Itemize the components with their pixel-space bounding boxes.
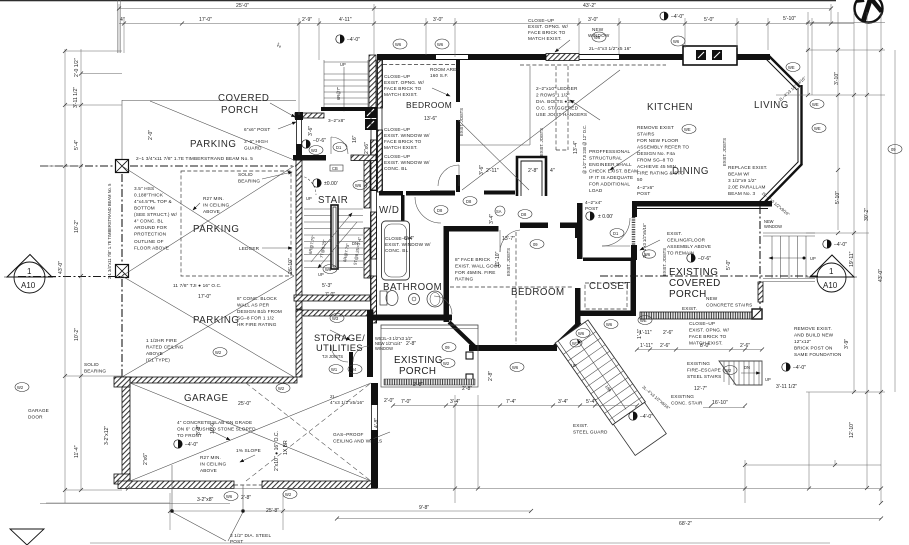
svg-text:CONC. BL: CONC. BL — [384, 166, 408, 171]
svg-text:4–2"x4": 4–2"x4" — [585, 200, 602, 205]
svg-text:5'-10": 5'-10" — [783, 16, 796, 22]
svg-text:EXIST. WINDOW W/: EXIST. WINDOW W/ — [385, 242, 431, 247]
svg-text:AND BUILD NEW: AND BUILD NEW — [794, 333, 834, 338]
svg-text:NEW: NEW — [706, 296, 718, 301]
svg-text:2'-0 1/2": 2'-0 1/2" — [74, 58, 80, 77]
svg-text:09: 09 — [891, 147, 896, 152]
svg-text:EXIST. JOISTS: EXIST. JOISTS — [459, 108, 464, 136]
beam line vertical dash-dot — [121, 159, 123, 378]
svg-text:2'-8": 2'-8" — [413, 382, 423, 388]
svg-text:3-2"x12": 3-2"x12" — [104, 426, 110, 445]
svg-text:2'-8": 2'-8" — [528, 168, 538, 174]
pantry box — [517, 157, 546, 196]
svg-text:EXIST.: EXIST. — [667, 231, 682, 236]
tag W2 garage r — [441, 359, 455, 368]
svg-text:W6: W6 — [226, 494, 233, 499]
wall: storage top — [296, 310, 373, 316]
svg-text:11'-4": 11'-4" — [74, 445, 80, 458]
wall: porch base at stair — [321, 107, 376, 111]
svg-text:3'-6" HIGH: 3'-6" HIGH — [244, 139, 268, 144]
svg-text:2"x6": 2"x6" — [364, 142, 370, 154]
wall: garage top — [117, 377, 297, 383]
svg-text:LIVING: LIVING — [754, 100, 789, 111]
elevation marker steel guard — [629, 412, 653, 420]
svg-text:WE: WE — [788, 65, 795, 70]
svg-text:ASSEMBLY REFER TO: ASSEMBLY REFER TO — [637, 145, 689, 150]
svg-text:4": 4" — [550, 168, 555, 174]
svg-text:FIRE RATING & STC: FIRE RATING & STC — [637, 171, 684, 176]
note: solid bearing — [238, 172, 260, 184]
svg-text:W6: W6 — [673, 39, 680, 44]
svg-text:GAS–PROOF: GAS–PROOF — [333, 432, 364, 437]
dimension chain: top row 1 — [119, 4, 831, 55]
svg-text:5'-4": 5'-4" — [586, 399, 596, 405]
svg-text:WE: WE — [640, 318, 647, 323]
svg-text:DESIGN B1b FROM: DESIGN B1b FROM — [237, 309, 282, 314]
note: remove exist brick post — [794, 326, 841, 357]
closet dashed shelves — [585, 283, 627, 309]
svg-text:O.C. STAGGERED: O.C. STAGGERED — [536, 106, 579, 111]
svg-text:TJI JOISTS: TJI JOISTS — [322, 354, 343, 359]
svg-text:BEAM W/: BEAM W/ — [728, 172, 750, 177]
svg-text:A10: A10 — [823, 281, 838, 290]
stair: diagonal to existing porch (SE) — [555, 320, 667, 456]
svg-text:3'-4": 3'-4" — [489, 214, 495, 224]
svg-text:7'-0": 7'-0" — [325, 292, 335, 298]
wall: bay diagonal bottom — [762, 164, 802, 205]
svg-text:FACE BRICK TO: FACE BRICK TO — [384, 86, 422, 91]
svg-text:2'-0": 2'-0" — [148, 130, 154, 140]
svg-text:5'-4": 5'-4" — [74, 140, 80, 150]
wall: stair hall right hatched — [364, 160, 370, 208]
elevation marker top kitchen — [660, 12, 684, 20]
svg-text:ACHIEVE 45 MIN.: ACHIEVE 45 MIN. — [637, 164, 678, 169]
door: storage D4 — [353, 346, 369, 362]
svg-text:8" FACE BRICK: 8" FACE BRICK — [455, 257, 491, 262]
svg-text:EXISTING: EXISTING — [687, 361, 710, 366]
svg-text:PROFFESSIONAL: PROFFESSIONAL — [589, 149, 631, 154]
svg-text:4"x4.5"PL TOP &: 4"x4.5"PL TOP & — [134, 199, 172, 204]
existing porch bottom-center outline — [381, 325, 478, 387]
svg-text:CLOSE–UP: CLOSE–UP — [528, 18, 554, 23]
svg-text:13'-7": 13'-7" — [502, 236, 515, 242]
bedroom2 dashed centerlines — [450, 232, 574, 344]
door: bathroom — [434, 296, 452, 314]
svg-text:±0.00': ±0.00' — [324, 181, 338, 187]
svg-text:DIA. BOLTS ●24": DIA. BOLTS ●24" — [536, 99, 575, 104]
wall: house top band (bedroom+kitchen) — [377, 55, 768, 60]
svg-text:EXIST. JOISTS: EXIST. JOISTS — [506, 248, 511, 276]
svg-text:OUTLINE OF: OUTLINE OF — [134, 239, 164, 244]
svg-text:ABOVE: ABOVE — [146, 351, 163, 356]
wall: bedroom2 top — [444, 226, 499, 232]
tag WE bay 2 — [810, 100, 824, 109]
svg-text:PORCH: PORCH — [669, 289, 707, 300]
compass north arrow top right — [855, 0, 883, 23]
wall: storage divider — [349, 352, 353, 377]
svg-text:STRUCTURAL: STRUCTURAL — [589, 156, 622, 161]
wall: stair hall bottom / storage top — [294, 295, 370, 301]
tag 09 existing porch right — [888, 145, 902, 154]
tag SA — [495, 206, 505, 216]
svg-text:SG–8 FOR 1 1/2: SG–8 FOR 1 1/2 — [237, 316, 274, 321]
svg-text:11 7/8" TJI ● 16" O.C.: 11 7/8" TJI ● 16" O.C. — [173, 283, 222, 288]
svg-text:8" CONC. BLOCK: 8" CONC. BLOCK — [237, 296, 278, 301]
svg-text:2'-6": 2'-6" — [740, 343, 750, 349]
svg-text:UP: UP — [810, 256, 816, 261]
dimension chain: top row 2 — [119, 18, 854, 115]
svg-text:UP: UP — [765, 377, 771, 382]
svg-text:EXIST. OPNG. W/: EXIST. OPNG. W/ — [528, 24, 569, 29]
tag W2 garage right wall — [723, 366, 737, 375]
svg-text:EXIST. OPNG. W/: EXIST. OPNG. W/ — [384, 80, 425, 85]
svg-text:REMOVE EXIST: REMOVE EXIST — [637, 125, 674, 130]
svg-text:1 1/2HR FIRE: 1 1/2HR FIRE — [146, 338, 177, 343]
svg-text:DOOR: DOOR — [28, 415, 43, 420]
svg-text:BATHROOM: BATHROOM — [383, 282, 442, 293]
porch left low wall — [758, 282, 763, 302]
svg-text:@ 1/2" TJI 230 @ 12" O.C.: @ 1/2" TJI 230 @ 12" O.C. — [582, 125, 587, 174]
svg-text:PORCH: PORCH — [221, 105, 259, 116]
svg-text:BEARING: BEARING — [238, 179, 260, 184]
svg-text:BEDROOM: BEDROOM — [511, 287, 565, 298]
svg-text:2'-0": 2'-0" — [384, 398, 394, 404]
svg-text:WINDOW: WINDOW — [764, 224, 782, 229]
svg-text:POST: POST — [585, 206, 598, 211]
svg-text:25'-0": 25'-0" — [236, 3, 249, 9]
svg-text:SOLID: SOLID — [84, 362, 99, 367]
svg-text:19'-11": 19'-11" — [849, 251, 855, 267]
wall: storage left — [296, 310, 302, 377]
note: existing fire-escape — [687, 361, 721, 379]
svg-text:1'-11": 1'-11" — [640, 343, 653, 349]
svg-text:POST: POST — [637, 191, 650, 196]
svg-text:ABOVE: ABOVE — [200, 468, 217, 473]
tag W6 bedroom2 — [576, 329, 590, 338]
svg-text:6"x6" POST: 6"x6" POST — [244, 127, 270, 132]
svg-text:6R@7": 6R@7" — [336, 86, 341, 100]
wall: bedroom2 left — [444, 226, 450, 322]
note: kitchen ledger — [536, 86, 587, 117]
tag 09 closet — [530, 240, 544, 249]
stair: fire escape steel — [719, 361, 762, 385]
svg-text:W6: W6 — [395, 42, 402, 47]
kitchen diagonals — [458, 70, 620, 190]
svg-text:W2: W2 — [443, 361, 450, 366]
note: r27 garage — [200, 455, 226, 473]
posts: two black squares left of bedroom — [365, 107, 377, 130]
svg-text:DN: DN — [744, 365, 750, 370]
dimension chain: bottom — [40, 392, 881, 543]
svg-text:GARAGE: GARAGE — [184, 393, 228, 404]
svg-text:12'-7": 12'-7" — [694, 386, 707, 392]
svg-text:WINDOW: WINDOW — [375, 346, 393, 351]
section marker A10 left — [4, 255, 56, 294]
tag W2 garage c — [276, 384, 290, 393]
svg-text:1'-11": 1'-11" — [639, 330, 652, 336]
tag D4 storage — [348, 365, 362, 374]
svg-text:LEDGER: LEDGER — [239, 246, 260, 251]
wall: dining left w/ door gap — [632, 203, 637, 217]
svg-text:EXIST. JOISTS: EXIST. JOISTS — [722, 138, 727, 166]
note: concrete slab — [177, 420, 256, 438]
door: kitchen arc left — [296, 175, 316, 195]
svg-text:(C1 TYPE): (C1 TYPE) — [146, 358, 170, 363]
wall: garage left — [122, 377, 130, 484]
note: close-up face brick porch — [689, 321, 730, 346]
note: garage door — [28, 408, 49, 420]
svg-text:FLOOR ABOVE: FLOOR ABOVE — [134, 246, 169, 251]
svg-text:10'-2": 10'-2" — [74, 328, 80, 341]
sink round — [409, 294, 420, 305]
svg-text:BEARING: BEARING — [84, 369, 106, 374]
svg-text:5'-3": 5'-3" — [322, 283, 332, 289]
svg-text:–4'-0": –4'-0" — [793, 365, 806, 371]
svg-text:4"x3 1/2"x5/16": 4"x3 1/2"x5/16" — [330, 400, 364, 405]
note: bedroom1 window1 — [384, 127, 430, 150]
svg-text:COVERED: COVERED — [669, 278, 721, 289]
note: close-up opng kitchen top — [528, 18, 569, 41]
svg-text:1: 1 — [829, 267, 834, 276]
svg-text:CLOSE–UP: CLOSE–UP — [384, 74, 410, 79]
svg-text:COVERED: COVERED — [218, 93, 269, 104]
tag D9 porch — [442, 343, 456, 352]
wall: covered porch / stair hall left — [295, 112, 303, 120]
svg-text:25'-0": 25'-0" — [238, 401, 251, 407]
dashed line left to A10 — [18, 276, 122, 278]
svg-text:W2: W2 — [215, 350, 222, 355]
svg-text:7'-4": 7'-4" — [506, 399, 516, 405]
svg-text:ENGINEER SHALL: ENGINEER SHALL — [589, 162, 632, 167]
svg-text:EXIST. WINDOW W/: EXIST. WINDOW W/ — [384, 160, 430, 165]
svg-text:3'-6": 3'-6" — [479, 165, 485, 175]
leader post — [278, 122, 296, 129]
kitchen counter thin lines — [460, 66, 530, 145]
svg-text:D4: D4 — [351, 367, 357, 372]
svg-text:4–2"x6": 4–2"x6" — [637, 185, 654, 190]
tag WE kitchen top — [682, 125, 696, 134]
svg-text:ABOVE: ABOVE — [203, 209, 220, 214]
svg-text:8'-0": 8'-0" — [196, 425, 202, 435]
elevation marker dining post — [586, 212, 613, 220]
wall: dining left post wall — [577, 203, 583, 259]
svg-text:CB: CB — [332, 166, 338, 171]
svg-text:2L–4"x3 1/2"x5 16": 2L–4"x3 1/2"x5 16" — [589, 46, 632, 51]
svg-text:A10: A10 — [21, 281, 36, 290]
svg-text:2–1 3/4"x11 7/8" 1.7E TIMBERS: 2–1 3/4"x11 7/8" 1.7E TIMBERSTRAND BEAM … — [136, 156, 253, 161]
wall: dining bottom — [632, 201, 772, 207]
svg-text:3'-0": 3'-0" — [433, 17, 443, 23]
note: covered porch post — [244, 127, 270, 151]
svg-text:1: 1 — [27, 267, 32, 276]
svg-text:BRICK POST ON: BRICK POST ON — [794, 346, 833, 351]
tag D1 porch — [333, 143, 347, 152]
svg-text:09: 09 — [445, 345, 450, 350]
svg-text:CONC. BL: CONC. BL — [385, 248, 409, 253]
svg-text:2'-8": 2'-8" — [406, 341, 416, 347]
svg-text:30'-2": 30'-2" — [864, 208, 870, 221]
tag W6 stair — [353, 181, 367, 190]
svg-text:BEAM No. 3: BEAM No. 3 — [728, 191, 756, 196]
svg-text:2'-8": 2'-8" — [241, 495, 251, 501]
svg-text:EXIST.: EXIST. — [682, 306, 697, 311]
svg-text:–4'-0": –4'-0" — [834, 242, 847, 248]
svg-text:MATCH EXIST.: MATCH EXIST. — [528, 36, 562, 41]
marker triangle bottom-left — [10, 529, 44, 545]
door: hall to WD — [415, 197, 441, 223]
svg-text:W6: W6 — [578, 331, 585, 336]
svg-text:3'-0": 3'-0" — [588, 17, 598, 23]
svg-text:EXISTING: EXISTING — [671, 394, 694, 399]
wall: bedroom1/kitchen divider vertical — [456, 60, 460, 102]
svg-text:WE: WE — [814, 126, 821, 131]
svg-text:W2: W2 — [278, 386, 285, 391]
elevation marker fire escape -4'-0" — [782, 363, 806, 371]
svg-text:WALL AS PER: WALL AS PER — [237, 303, 270, 308]
svg-text:EXIST. WINDOW W/: EXIST. WINDOW W/ — [384, 133, 430, 138]
svg-text:12'-10": 12'-10" — [849, 422, 855, 438]
note: room area — [430, 67, 460, 78]
wall: W/D divider — [401, 195, 405, 221]
svg-text:STEEL STAIRS: STEEL STAIRS — [687, 374, 721, 379]
svg-text:R27 MIN.: R27 MIN. — [203, 196, 224, 201]
svg-text:W2: W2 — [285, 492, 292, 497]
elevation marker porch door — [302, 138, 326, 148]
wall: existing covered porch bottom close-up band — [640, 312, 753, 319]
note: new concrete stairs — [706, 296, 752, 308]
garage door opening dashes — [234, 484, 262, 486]
svg-text:43'-2": 43'-2" — [583, 3, 596, 9]
wall: hatched close-up segment top — [546, 54, 579, 61]
bathtub — [382, 221, 410, 280]
tag W2 parking — [213, 348, 227, 357]
garage diagonals X — [130, 383, 371, 481]
svg-text:16": 16" — [352, 135, 358, 143]
svg-text:11'-10": 11'-10" — [495, 251, 501, 267]
note: professional engineer — [589, 149, 638, 193]
svg-text:W6: W6 — [437, 42, 444, 47]
svg-text:2'-11": 2'-11" — [486, 168, 499, 174]
svg-text:FOR ADDITIONAL: FOR ADDITIONAL — [589, 182, 630, 187]
elevation marker porch -0'-6" — [687, 254, 711, 262]
svg-text:CLOSE–UP: CLOSE–UP — [384, 154, 410, 159]
svg-text:4" CONC. BL: 4" CONC. BL — [134, 219, 164, 224]
tag W3 storage top — [330, 314, 344, 323]
svg-text:FACE BRICK TO: FACE BRICK TO — [528, 30, 566, 35]
border line top — [0, 0, 836, 2]
svg-text:2'-8": 2'-8" — [488, 371, 494, 381]
extra leader arrows — [210, 88, 660, 462]
svg-text:± 0.00': ± 0.00' — [598, 214, 613, 220]
svg-text:16'-10": 16'-10" — [712, 400, 728, 406]
svg-text:3'-4": 3'-4" — [558, 399, 568, 405]
note: wd window — [385, 236, 431, 253]
svg-text:FROM SG–8 TO: FROM SG–8 TO — [637, 158, 674, 163]
window tag W6 right of kitchen — [671, 36, 685, 46]
svg-text:EXISTING: EXISTING — [669, 267, 718, 278]
svg-text:17'-0": 17'-0" — [199, 17, 212, 23]
svg-text:2L–4"x3 1/2"x5/16": 2L–4"x3 1/2"x5/16" — [642, 223, 647, 258]
svg-text:3 1/2" DIA. STEEL: 3 1/2" DIA. STEEL — [230, 533, 271, 538]
svg-text:W2: W2 — [725, 368, 732, 373]
door: bedroom2 — [500, 230, 520, 252]
svg-text:2.0E PARALLAM: 2.0E PARALLAM — [728, 185, 766, 190]
svg-text:STEEL GUARD: STEEL GUARD — [573, 430, 608, 435]
svg-text:WINDOW: WINDOW — [588, 33, 610, 38]
svg-text:D1: D1 — [613, 231, 619, 236]
svg-text:UP: UP — [318, 272, 324, 277]
svg-text:–4'-0": –4'-0" — [640, 414, 653, 420]
dimension chain: right side — [776, 12, 895, 503]
svg-text:50: 50 — [637, 177, 643, 182]
kitchen dashed cabinets top — [520, 64, 666, 66]
tag W6 garage door — [224, 492, 238, 501]
svg-text:UP: UP — [571, 363, 577, 368]
wall: closet bottom — [580, 311, 636, 317]
svg-text:3'-4": 3'-4" — [450, 399, 460, 405]
door: dining D1 — [602, 218, 630, 246]
dashed line right porch to A10 — [600, 275, 818, 277]
svg-text:KITCHEN: KITCHEN — [647, 102, 693, 113]
svg-text:AROUND FOR: AROUND FOR — [134, 225, 167, 230]
svg-text:BOTTOM: BOTTOM — [134, 206, 155, 211]
tag W1 stairbt — [570, 339, 582, 347]
svg-text:ASSEMBLY ABOVE: ASSEMBLY ABOVE — [667, 244, 711, 249]
elevation marker -4'-0" top — [336, 35, 360, 43]
svg-text:3'-11 1/2": 3'-11 1/2" — [776, 384, 797, 390]
note: 8 face brick — [455, 257, 502, 282]
porch right dashed edge — [759, 206, 761, 311]
svg-text:–4'-0": –4'-0" — [185, 442, 198, 448]
tag W6 storage — [323, 265, 337, 274]
svg-text:PARKING: PARKING — [190, 139, 236, 150]
note: bedroom1 close-up opng — [384, 74, 425, 97]
svg-text:SA: SA — [496, 209, 502, 214]
svg-text:4'-11": 4'-11" — [339, 17, 352, 23]
svg-text:MATCH EXIST.: MATCH EXIST. — [384, 145, 418, 150]
corner post existing porch — [752, 309, 762, 319]
posts: two black squares lower left — [365, 168, 377, 191]
stair center rail — [331, 205, 338, 269]
svg-text:D8: D8 — [437, 208, 443, 213]
svg-text:D8: D8 — [466, 199, 472, 204]
door: storage W1 — [331, 345, 348, 362]
parking dashed interior rect — [181, 171, 291, 276]
svg-text:CONCRETE STAIRS: CONCRETE STAIRS — [706, 303, 752, 308]
svg-text:REMOVE EXIST.: REMOVE EXIST. — [794, 326, 832, 331]
svg-text:EXIST.: EXIST. — [573, 423, 588, 428]
wall: bedroom2 bay diagonals and bottom — [449, 322, 580, 348]
svg-text:REPLACE EXIST.: REPLACE EXIST. — [728, 165, 768, 170]
note: replace exist beam — [728, 165, 768, 196]
svg-text:EXIST. OPNG. W/: EXIST. OPNG. W/ — [689, 328, 730, 333]
svg-text:2"x6": 2"x6" — [143, 453, 149, 465]
svg-text:6'-4": 6'-4" — [404, 236, 414, 242]
svg-text:2'-6": 2'-6" — [663, 330, 673, 336]
stair arrows diagonal — [311, 213, 352, 262]
svg-text:PARKING: PARKING — [193, 224, 239, 235]
svg-text:10'-2": 10'-2" — [74, 220, 80, 233]
svg-text:7'-0": 7'-0" — [401, 399, 411, 405]
svg-text:2-1 3/4"x11 7/8" 1.7E TIMBERST: 2-1 3/4"x11 7/8" 1.7E TIMBERSTRAND BEAM … — [107, 183, 112, 279]
svg-text:CEILING AND WALLS: CEILING AND WALLS — [333, 439, 382, 444]
svg-text:8'-0": 8'-0" — [700, 343, 710, 349]
wall: bay diagonal top — [768, 55, 800, 87]
post on beam bottom — [116, 265, 129, 278]
svg-text:43'-0": 43'-0" — [878, 269, 884, 282]
svg-text:2 ROWS 1 1/2": 2 ROWS 1 1/2" — [536, 93, 570, 98]
wall: garage bottom — [118, 481, 234, 489]
